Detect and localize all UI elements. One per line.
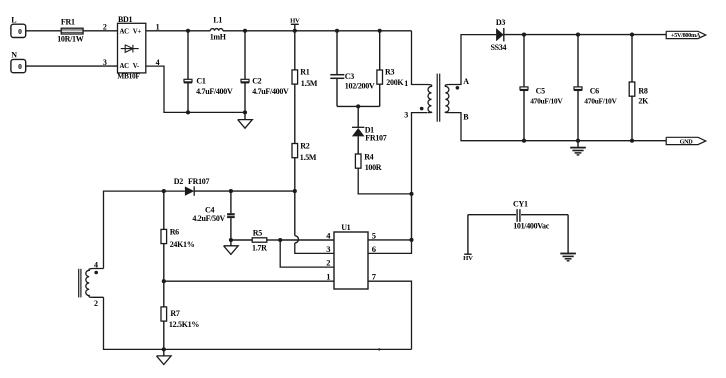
wire D3 to +5V [504,34,666,36]
svg-text:R4: R4 [364,152,373,161]
svg-text:FR107: FR107 [365,134,386,143]
svg-text:0: 0 [18,27,22,36]
diode D1 [357,106,359,128]
T1 primary phase dot [420,107,424,111]
node pin5 junction [409,238,413,242]
svg-text:3: 3 [103,58,107,67]
svg-text:AC: AC [120,63,130,70]
svg-text:4: 4 [94,260,98,269]
svg-text:R1: R1 [300,68,309,77]
svg-text:L1: L1 [213,15,222,24]
transformer T1 secondary winding [445,85,449,113]
resistor R2 [292,144,298,158]
ground under C4 [230,240,232,246]
wire U1 pin6 [368,240,412,254]
svg-text:4.7uF/400V: 4.7uF/400V [196,87,233,96]
svg-text:R5: R5 [253,228,262,237]
svg-text:D2: D2 [174,177,183,186]
svg-text:V-: V- [133,63,140,70]
capacitor C1 [187,31,189,80]
svg-text:2K: 2K [638,96,649,105]
svg-text:470uF/10V: 470uF/10V [584,96,617,105]
svg-text:A: A [463,77,469,86]
svg-text:FR107: FR107 [188,177,209,186]
svg-text:BD1: BD1 [118,15,133,24]
svg-text:101/400Vac: 101/400Vac [513,222,550,231]
node C3 top [335,29,339,33]
aux winding coil [86,269,104,298]
aux phase dot [94,271,98,275]
transformer T1 primary winding [428,85,432,113]
capacitor CY1 [468,214,516,216]
capacitor C5 [523,35,525,87]
wire junction down from R4 node [411,194,413,240]
resistor R5 [231,239,252,241]
power port HV bottom [467,215,469,254]
svg-text:R8: R8 [638,86,647,95]
T1 secondary phase dot [456,86,460,90]
capacitor C2 [244,31,246,80]
node R8 bottom [630,139,634,143]
wire FB to U1 pin1 [164,280,334,282]
ground under bottom rail [163,349,165,356]
wire bridge pin1 to L1 [146,30,211,32]
svg-text:CY1: CY1 [513,199,528,208]
svg-text:1.5M: 1.5M [301,79,318,88]
node C1 top [186,29,190,33]
wire R5 to node [267,239,280,241]
wire R2 to D2 rail [294,158,296,191]
wire node down to pin2 [280,240,334,267]
svg-text:12.5K1%: 12.5K1% [169,320,199,329]
svg-text:24K1%: 24K1% [170,240,195,249]
capacitor C6 [577,35,579,87]
inductor L1 [210,29,223,31]
node C6 bottom [576,139,580,143]
node C1 bottom [186,110,190,114]
resistor R6 [163,191,165,229]
svg-text:SS34: SS34 [491,43,507,52]
wire B to gnd rail [449,113,666,141]
svg-text:5: 5 [372,231,376,241]
svg-text:2: 2 [94,299,98,308]
port +5V/800mA [666,31,706,38]
earth ground CY1 [567,215,569,254]
node R4 junction [409,192,413,196]
op-amp U1 [334,232,368,289]
resistor R4 [355,154,361,168]
svg-text:4.7uF/400V: 4.7uF/400V [252,87,289,96]
node R3 top [378,29,382,33]
node C4 bottom [229,238,233,242]
svg-text:L: L [11,16,16,25]
wire N to bridge pin 3 [26,65,118,67]
diode D3 [496,28,504,41]
svg-text:U1: U1 [341,223,350,232]
svg-text:D3: D3 [496,18,505,27]
terminal L [11,24,26,37]
port GND [666,137,706,144]
svg-text:100R: 100R [365,163,382,172]
svg-text:3: 3 [326,244,330,254]
wire R1 to R2 [294,84,296,143]
svg-text:10R/1W: 10R/1W [57,35,84,44]
node R5 pin4 [278,238,282,242]
svg-text:MB10F: MB10F [117,71,140,80]
svg-text:C6: C6 [590,86,599,95]
diode D2 [185,186,194,195]
svg-text:HV: HV [290,18,300,25]
node C5 bottom [522,139,526,143]
node R7 bottom [162,347,166,351]
node snubber mid [356,104,360,108]
svg-text:3: 3 [404,111,408,120]
wire R4 to junction [358,168,411,194]
svg-text:C5: C5 [536,86,545,95]
junction mark bottom rail [378,348,380,350]
resistor R1 [294,31,296,70]
wire D2 rail left [104,191,185,268]
node C2 bottom [243,110,247,114]
svg-text:R7: R7 [170,309,179,318]
svg-text:1.7R: 1.7R [252,243,267,252]
wire R3 to snubber rail [379,84,381,106]
svg-text:2: 2 [103,23,107,32]
wire bridge pin4 down [146,66,245,112]
svg-text:C3: C3 [345,72,354,81]
svg-text:1: 1 [326,272,330,282]
svg-text:1: 1 [404,79,408,88]
svg-text:C2: C2 [252,77,261,86]
svg-text:R3: R3 [385,68,394,77]
svg-text:FR1: FR1 [61,18,75,27]
wire T1 pin3 [412,113,428,194]
svg-text:2: 2 [326,258,330,268]
svg-text:C1: C1 [196,77,205,86]
svg-text:V+: V+ [133,29,142,36]
wire node to U1 pin4 [280,239,334,241]
capacitor C4 [230,191,232,213]
wire L1 to corner [223,30,412,32]
svg-text:0: 0 [18,62,22,71]
svg-text:N: N [11,51,17,60]
wire rail to T1 pin1 [412,31,429,85]
node R8 top [630,33,634,37]
wire D2 to R2 line [194,190,295,192]
resistor R8 [631,35,633,82]
svg-text:GND: GND [680,138,694,145]
wire L to FR1 [26,30,62,32]
resistor R7 [161,307,167,321]
svg-text:R2: R2 [300,142,309,151]
svg-text:1mH: 1mH [210,32,227,41]
svg-text:470uF/10V: 470uF/10V [530,96,563,105]
ground under C2 [244,112,246,119]
wire aux pin2 to bottom rail [104,297,412,349]
aux winding core [78,269,80,298]
node C5 top [522,33,526,37]
node C4 top [229,189,233,193]
resistor R3 [379,31,381,70]
bridge rectifier BD1 [118,23,146,73]
resistor FR1 [61,28,83,34]
svg-text:R6: R6 [170,228,179,237]
node FB junction [162,279,166,283]
svg-text:102/200V: 102/200V [345,82,375,91]
wire snubber rail [337,105,380,107]
wire bottom rail up to U1 pin7 [368,281,412,349]
node C2 top [243,29,247,33]
wire R2-line hop to U1 pin3 [294,191,296,236]
capacitor C3 [336,31,338,75]
wire U1 pin5 [368,239,412,241]
svg-text:200K: 200K [386,78,404,87]
terminal N [11,59,26,72]
wire A up to D3 [449,35,496,85]
svg-text:AC: AC [120,29,130,36]
node R6 top [162,189,166,193]
wire R6 to R7 [163,244,165,350]
node R2 D2-rail [293,189,297,193]
node HV [293,29,297,33]
svg-text:4.2uF/50V: 4.2uF/50V [192,214,225,223]
svg-text:+5V/800mA: +5V/800mA [671,32,701,39]
svg-text:1.5M: 1.5M [300,153,317,162]
earth ground output [577,141,579,148]
svg-text:6: 6 [372,244,376,254]
svg-text:HV: HV [463,255,473,262]
transformer T1 core [436,74,438,122]
wire FR1 to bridge pin 2 [83,30,117,32]
node C6 top [576,33,580,37]
